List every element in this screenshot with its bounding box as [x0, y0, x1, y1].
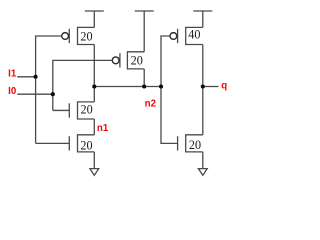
svg-text:20: 20 [80, 139, 92, 153]
svg-text:20: 20 [131, 54, 143, 68]
wire N2 source to ground [93, 152, 95, 169]
wire node n1 between N1 and N2 [93, 119, 95, 135]
svg-text:n1: n1 [97, 123, 109, 134]
power VDD supply 3 [193, 11, 212, 27]
svg-text:q: q [221, 81, 227, 92]
wire N1 gate lead from I0 [53, 109, 70, 111]
power VDD supply 1 [85, 11, 104, 27]
svg-text:20: 20 [81, 103, 93, 117]
wire N2 gate lead from I1 [36, 142, 70, 144]
wire output q lead [203, 86, 219, 88]
svg-text:I1: I1 [8, 69, 17, 80]
svg-text:n2: n2 [145, 99, 157, 110]
nmos transistor N3 (gate n2) [178, 135, 203, 152]
svg-text:20: 20 [189, 138, 201, 152]
node label I1 [8, 69, 17, 80]
wire input I0 lead [17, 93, 53, 95]
svg-text:I0: I0 [8, 86, 16, 97]
nmos transistor N2 (gate I1) [69, 135, 94, 152]
ground symbol under N3 [198, 169, 207, 176]
junction dot n2 at P2 drain [142, 84, 146, 88]
svg-text:40: 40 [188, 28, 200, 42]
wire P3 drain down to node q [202, 45, 204, 87]
junction dot I1 [34, 75, 38, 79]
wire N3 drain up to node q [202, 87, 204, 135]
wire input I1 lead [17, 76, 35, 78]
nmos transistor N1 (gate I0) [69, 102, 94, 119]
junction dot n2 at gate branch [159, 84, 163, 88]
wire net I0 vertical, up to P2 gate bubble [53, 60, 113, 110]
wire n2 down to N3 gate [161, 87, 178, 144]
node label n2 [145, 99, 157, 110]
wire net I1 vertical with corner to P1 gate bubble [36, 36, 62, 143]
junction dot n2 at N1 drain [92, 84, 96, 88]
wire P2 drain down to node n2 [143, 69, 145, 87]
pmos transistor P1 (top-left, gate I1) [62, 27, 95, 44]
wire P1 drain down to node n2 and N1 drain [93, 45, 95, 102]
power VDD supply 2 [135, 11, 154, 52]
wire n2 up to P3 gate bubble [161, 36, 170, 87]
junction dot q [201, 84, 205, 88]
wire N3 source to ground [202, 152, 204, 169]
svg-text:20: 20 [80, 30, 92, 44]
wire node n2 horizontal [94, 86, 161, 88]
junction dot I0 [51, 92, 55, 96]
pmos transistor P2 (middle, gate I0) [112, 52, 144, 69]
ground symbol under N2 [90, 169, 99, 176]
pmos transistor P3 (top-right, gate n2) [170, 27, 203, 44]
node label I0 [8, 86, 16, 97]
node label n1 [97, 123, 109, 134]
node label q [221, 81, 227, 92]
